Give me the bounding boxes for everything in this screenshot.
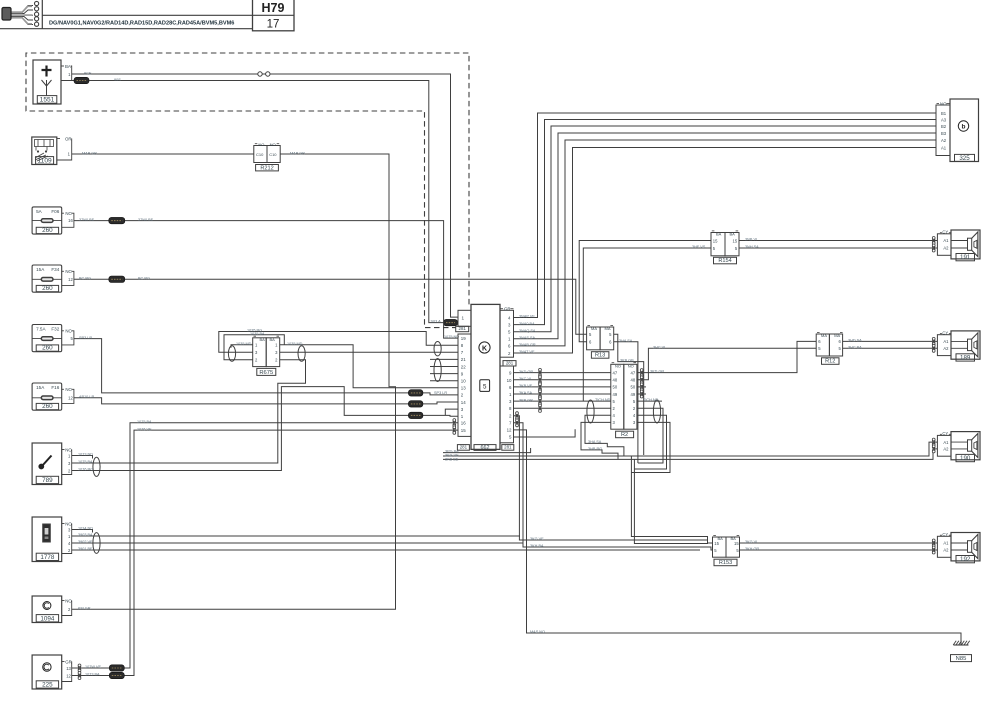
- shield ellipse at radio pins 21-10: [434, 359, 441, 382]
- wire: 662 pin 2 to amplifier 325: [514, 148, 937, 354]
- wire: 662 pin 1 to amplifier 325: [514, 133, 937, 339]
- svg-text:GR: GR: [65, 660, 72, 665]
- svg-text:R12: R12: [825, 359, 835, 365]
- svg-text:189: 189: [960, 355, 971, 362]
- svg-text:3HC BA: 3HC BA: [848, 345, 862, 349]
- svg-text:49: 49: [631, 392, 636, 397]
- svg-text:A2: A2: [943, 548, 949, 553]
- svg-text:1035 MD: 1035 MD: [287, 342, 303, 346]
- svg-text:BA: BA: [260, 337, 266, 342]
- svg-text:DG/NAV0G1,NAV0G2/RAD14D,RAD15D: DG/NAV0G1,NAV0G2/RAD14D,RAD15D,RAD28C,RA…: [49, 20, 234, 26]
- radio pin 10 stub: [430, 380, 458, 382]
- svg-text:3KG VI: 3KG VI: [745, 540, 757, 544]
- wire: R2 right pin 5 stub: [637, 400, 662, 402]
- svg-text:1075 BA: 1075 BA: [78, 460, 93, 464]
- svg-text:MA: MA: [834, 333, 840, 338]
- wire: 1778 pin 3 shield stub: [72, 530, 93, 533]
- wire: R2 pin 3 staircase to 190 line: [581, 422, 618, 459]
- svg-text:3KB VE: 3KB VE: [519, 384, 533, 388]
- svg-text:1551: 1551: [40, 97, 55, 104]
- svg-text:13: 13: [66, 666, 71, 671]
- svg-text:48: 48: [613, 378, 618, 383]
- wire: under-unit line 3 to speaker 190 A2: [443, 449, 937, 460]
- svg-text:TICH ND: TICH ND: [595, 398, 611, 402]
- wire: antenna shield to radio: [61, 80, 74, 82]
- inline junctions on antenna lead: [258, 72, 262, 76]
- svg-text:281: 281: [459, 326, 467, 331]
- svg-text:MA: MA: [605, 326, 611, 331]
- svg-text:3NA0 BA: 3NA0 BA: [519, 322, 535, 326]
- svg-text:15: 15: [733, 238, 738, 243]
- svg-text:OR: OR: [65, 137, 72, 142]
- speaker 191 front right: [937, 234, 951, 256]
- svg-text:3KH BA: 3KH BA: [530, 544, 544, 548]
- display unit 1778: [32, 517, 62, 562]
- wire: under-unit line 2 to speaker 190 A1: [443, 442, 937, 456]
- wire: R2 pin 48 to R12 pin 5: [637, 348, 816, 380]
- svg-text:MAP GR: MAP GR: [290, 151, 305, 155]
- fuse F16 15A in fuse box 260: [32, 383, 62, 410]
- svg-text:3KB GB: 3KB GB: [620, 359, 634, 363]
- wire: F16 to radio pin 14: [74, 398, 458, 404]
- wire: R2 right pin 2 loop: [637, 408, 663, 463]
- svg-text:B2: B2: [941, 124, 947, 129]
- wire: R2 pin 49 stub: [637, 393, 646, 395]
- wire: R12 right pin 6 to speaker 189 A1: [843, 340, 938, 342]
- svg-text:7.5A: 7.5A: [36, 327, 46, 332]
- ground N85: [954, 644, 969, 646]
- svg-text:1035 MD: 1035 MD: [236, 342, 252, 346]
- connector label 281 bottom-left: [457, 445, 469, 451]
- svg-text:BA: BA: [270, 337, 276, 342]
- connector label 281 right-bottom: [502, 445, 514, 451]
- svg-text:3KC VI: 3KC VI: [519, 377, 531, 381]
- speaker 190 rear right: [937, 435, 951, 456]
- wire: R675 left pin 3 to radio pin 8: [219, 332, 458, 353]
- svg-text:10: 10: [461, 379, 466, 384]
- wire: F06 to radio pin 19: [74, 221, 458, 339]
- svg-text:NO: NO: [615, 364, 621, 369]
- svg-text:662: 662: [481, 445, 490, 451]
- svg-text:F34: F34: [51, 267, 59, 272]
- diagnostic socket 225: [32, 655, 62, 689]
- svg-text:R2: R2: [621, 432, 628, 438]
- wire: 789 pin 2 to radio pin 1: [72, 387, 458, 471]
- svg-text:1076 RG: 1076 RG: [78, 468, 93, 472]
- svg-text:3KD GR: 3KD GR: [519, 370, 533, 374]
- svg-text:260: 260: [42, 227, 53, 234]
- svg-text:1076 VE: 1076 VE: [137, 427, 152, 431]
- svg-text:1073 BA: 1073 BA: [85, 673, 100, 677]
- 1551 pin bracket BA / pin 1: [61, 65, 64, 67]
- wire: 662 pin 10 to R2: [514, 379, 611, 381]
- amplifier 325: [936, 105, 950, 156]
- svg-text:B3: B3: [941, 131, 947, 136]
- svg-text:1109: 1109: [38, 158, 53, 165]
- svg-text:1: 1: [462, 316, 465, 321]
- svg-text:12: 12: [68, 277, 73, 282]
- connector label 281 right-top: [503, 361, 516, 366]
- speaker 189 front left: [937, 335, 951, 356]
- svg-text:A2: A2: [941, 138, 947, 143]
- shield ellipse left of R675: [228, 346, 235, 362]
- svg-text:3NAQ SA: 3NAQ SA: [519, 329, 536, 333]
- svg-text:50: 50: [613, 385, 618, 390]
- wire: R2 right pin 3 loop: [631, 422, 670, 472]
- svg-text:CY: CY: [942, 331, 948, 336]
- svg-text:3KA SA: 3KA SA: [519, 391, 533, 395]
- svg-text:1035 BA: 1035 BA: [250, 332, 265, 336]
- svg-text:MAS NO: MAS NO: [530, 630, 545, 634]
- wire: R2 pin 47 to R12 pin 6: [637, 341, 816, 372]
- svg-text:B1: B1: [941, 111, 947, 116]
- shield ellipse at 789: [93, 457, 100, 476]
- svg-text:3NAS SA: 3NAS SA: [519, 336, 536, 340]
- wire: 662 pin 4 to amplifier 325: [514, 113, 937, 318]
- wire: 662 pin 6 to amplifier 325: [514, 140, 937, 346]
- svg-text:225: 225: [42, 682, 53, 689]
- svg-text:N85: N85: [956, 656, 967, 662]
- control unit 1094: [32, 596, 62, 623]
- svg-text:A2: A2: [943, 346, 949, 351]
- svg-text:NO: NO: [65, 387, 72, 392]
- 789 pin bracket NO / pins 1 3 2: [62, 449, 65, 451]
- ignition switch 1109: [32, 137, 57, 165]
- svg-text:MA: MA: [821, 333, 827, 338]
- 662 main left pin strip: [458, 334, 471, 436]
- shield ellipse at 1778: [93, 533, 100, 554]
- 662 right top pin strip (GR): [500, 310, 514, 357]
- wire: R675 right pin 3 to radio pin 7: [280, 351, 458, 353]
- svg-text:16: 16: [68, 218, 73, 223]
- svg-text:50: 50: [631, 385, 636, 390]
- svg-text:NO: NO: [270, 142, 276, 147]
- svg-text:MA: MA: [591, 326, 597, 331]
- shield ellipse right of R2: [653, 400, 660, 423]
- svg-text:R154: R154: [718, 258, 731, 264]
- 662 secondary logo: [480, 380, 490, 392]
- microphone 789: [32, 443, 62, 485]
- svg-text:281: 281: [504, 445, 512, 450]
- svg-text:NO: NO: [628, 364, 634, 369]
- svg-text:H79: H79: [262, 1, 285, 15]
- svg-text:16: 16: [461, 421, 466, 426]
- wire: R2 pin 4 staircase to 190 line: [585, 415, 624, 456]
- svg-text:F06: F06: [51, 209, 59, 214]
- svg-text:3KB BE: 3KB BE: [445, 457, 459, 461]
- svg-text:13: 13: [461, 386, 466, 391]
- svg-text:A1: A1: [941, 145, 947, 150]
- connector R212: [254, 146, 267, 163]
- svg-text:3HA SA: 3HA SA: [619, 339, 633, 343]
- connector R12: [816, 334, 829, 356]
- svg-text:A1: A1: [943, 238, 949, 243]
- wire: R154 right pin 5 to speaker 191 A2: [739, 247, 937, 249]
- svg-text:A1: A1: [943, 440, 949, 445]
- svg-text:GR: GR: [504, 306, 511, 311]
- svg-text:22: 22: [461, 364, 466, 369]
- svg-text:3HA SA: 3HA SA: [588, 440, 602, 444]
- wire: R154 right pin 15 to speaker 191 A1: [739, 240, 937, 242]
- svg-text:A2: A2: [943, 246, 949, 251]
- header title block: [0, 28, 253, 30]
- svg-text:F32: F32: [51, 327, 59, 332]
- svg-text:15: 15: [461, 428, 466, 433]
- wire: loop below R2 a: [631, 456, 707, 540]
- svg-text:NO: NO: [258, 142, 264, 147]
- wire: 662 pin 1 to R2: [514, 393, 611, 395]
- wire: R154 pin 15 to R13 pin 6: [579, 241, 711, 342]
- wire: R675 left pin 1 stub: [231, 345, 253, 348]
- wire: branch to radio pin 3: [445, 409, 458, 415]
- svg-text:SP3 LR: SP3 LR: [79, 336, 92, 340]
- wire: 662 pin 2 to R153 pin 15: [516, 412, 519, 415]
- radio-navigation unit 662 body: [471, 304, 500, 449]
- svg-text:260: 260: [42, 285, 53, 292]
- wire: antenna pin 1 coax core to radio pin 1: [72, 74, 458, 317]
- wire: R13 right pin 5 drop: [614, 334, 644, 455]
- svg-text:A1: A1: [943, 339, 949, 344]
- svg-text:R675: R675: [259, 370, 273, 376]
- svg-text:325: 325: [959, 155, 970, 162]
- svg-text:1075 BA: 1075 BA: [137, 420, 152, 424]
- wire: 225 pin 12 to radio pin 15: [72, 430, 458, 675]
- radio pin 9 stub: [430, 373, 458, 375]
- speaker 192 rear left: [937, 536, 951, 557]
- wire: R153 right pin 5 to speaker 192 A2: [740, 549, 938, 551]
- wire: R13 right pin 6 drop: [614, 342, 638, 463]
- shield ellipse right of R675: [298, 346, 305, 362]
- svg-text:R212: R212: [260, 165, 273, 171]
- svg-text:260: 260: [42, 345, 53, 352]
- svg-text:5A: 5A: [36, 209, 43, 214]
- wire: R212 to 1094 pin 2 (long loop): [72, 154, 396, 609]
- svg-text:CY: CY: [942, 532, 948, 537]
- wire: R153 right pin 15 to speaker 192 A1: [740, 542, 938, 544]
- svg-text:12: 12: [66, 673, 71, 678]
- svg-text:191: 191: [960, 254, 971, 261]
- fuse F32 7.5A in fuse box 260: [32, 325, 62, 352]
- wire: R12 right pin 5 to speaker 189 A2: [843, 347, 938, 349]
- svg-text:b: b: [962, 124, 966, 131]
- svg-text:47: 47: [613, 370, 618, 375]
- svg-text:BC RG: BC RG: [79, 277, 91, 281]
- svg-text:12: 12: [68, 395, 73, 400]
- svg-text:BC RG: BC RG: [138, 277, 150, 281]
- svg-text:NO: NO: [65, 211, 72, 216]
- wire: R2 right pin 4 loop: [634, 415, 666, 469]
- wire: 662 pin 8 to R2: [514, 407, 611, 409]
- svg-text:K: K: [482, 345, 487, 352]
- svg-text:19: 19: [461, 336, 466, 341]
- svg-text:90S: 90S: [114, 78, 121, 82]
- svg-text:260: 260: [42, 403, 53, 410]
- svg-text:12: 12: [507, 428, 512, 433]
- 1094 pin bracket NO / pin 2: [62, 600, 65, 602]
- svg-text:F16: F16: [51, 385, 59, 390]
- svg-text:C10: C10: [256, 152, 264, 157]
- svg-text:15: 15: [714, 541, 719, 546]
- svg-text:21: 21: [461, 357, 466, 362]
- wire: 662 pin 12 ground to N85: [514, 430, 962, 645]
- wire: 1778 pin 2: [72, 549, 700, 551]
- svg-text:3HD SA: 3HD SA: [848, 339, 862, 343]
- wire: under-unit line 1: [443, 448, 531, 453]
- wire: R675 left pin 2 branch: [224, 335, 284, 360]
- svg-text:1075 ND: 1075 ND: [444, 335, 459, 339]
- unit label 662: [474, 445, 496, 451]
- connector R154: [711, 233, 725, 256]
- svg-text:47: 47: [631, 370, 636, 375]
- wire: 1778 pin 4: [72, 542, 524, 544]
- connector R13: [587, 327, 601, 350]
- svg-text:S03 A: S03 A: [431, 320, 442, 324]
- svg-text:MAP GR: MAP GR: [82, 151, 97, 155]
- svg-text:C10: C10: [269, 152, 277, 157]
- wire: 789 pin 1 shield stub: [72, 456, 93, 459]
- wire: 662 pin 7 to R153 pin 5: [516, 419, 519, 422]
- antenna 1551: [33, 60, 61, 104]
- svg-text:190: 190: [960, 455, 971, 462]
- svg-text:3NAT VE: 3NAT VE: [519, 350, 535, 354]
- svg-text:3NH SA: 3NH SA: [745, 245, 759, 249]
- svg-text:3901 BE: 3901 BE: [78, 547, 93, 551]
- svg-text:15: 15: [734, 541, 739, 546]
- svg-text:3HF VS: 3HF VS: [692, 245, 706, 249]
- shield ellipse left of R2: [587, 400, 594, 423]
- wire: loop below R2 b: [634, 459, 708, 543]
- svg-text:3NB VI: 3NB VI: [745, 238, 757, 242]
- svg-text:NO: NO: [65, 269, 72, 274]
- svg-text:A3: A3: [941, 117, 947, 122]
- fuse F06 5A in fuse box 260: [32, 207, 62, 234]
- svg-text:KM GR: KM GR: [78, 607, 91, 611]
- wire: R675 right pin 1 to radio pin 13: [280, 345, 458, 388]
- svg-text:49: 49: [613, 392, 618, 397]
- header harness connector icon: [11, 6, 34, 25]
- svg-text:9CE: 9CE: [84, 71, 92, 75]
- svg-text:107W VE: 107W VE: [85, 665, 102, 669]
- wire: 662 pin 3 to amplifier 325: [514, 120, 937, 325]
- svg-text:CY: CY: [942, 230, 948, 235]
- wire: 662 pin 5 to R2 underside: [514, 429, 576, 437]
- svg-text:3902 VE: 3902 VE: [78, 540, 93, 544]
- svg-text:17: 17: [267, 18, 280, 30]
- svg-text:5: 5: [483, 384, 487, 391]
- svg-text:3HB RG: 3HB RG: [588, 447, 602, 451]
- radio pin 21 stub: [430, 358, 458, 360]
- connector R153: [713, 537, 727, 557]
- 225 pin bracket GR / pins 13 12: [62, 661, 65, 663]
- svg-text:TICH ND: TICH ND: [643, 398, 659, 402]
- wire: F34 to R13 pin 5: [74, 279, 587, 334]
- wire: F32 to radio pin 2: [74, 339, 458, 395]
- radio pin 22 stub: [430, 366, 458, 368]
- svg-text:BA: BA: [65, 64, 71, 69]
- svg-text:BA: BA: [716, 232, 722, 237]
- svg-text:3KG VE: 3KG VE: [530, 537, 544, 541]
- svg-text:CY: CY: [942, 431, 948, 436]
- svg-text:789: 789: [42, 477, 53, 484]
- svg-text:1778: 1778: [40, 554, 55, 561]
- fuse F34 15A in fuse box 260: [32, 265, 62, 292]
- svg-text:1094: 1094: [40, 615, 55, 622]
- svg-text:48: 48: [631, 378, 636, 383]
- 662 coax pin strip (pin 1): [458, 310, 471, 326]
- svg-text:SP3 LR: SP3 LR: [434, 391, 447, 395]
- svg-text:NO: NO: [940, 101, 947, 106]
- shield ellipse at radio pins 8-7: [434, 342, 441, 356]
- wire: 662 pin 6 to R2: [514, 386, 611, 388]
- wire: 1109 pin 1 to R212: [72, 153, 254, 155]
- svg-text:37N0 BE: 37N0 BE: [79, 218, 95, 222]
- 1109 pin bracket OR / pin 1: [57, 138, 60, 140]
- svg-text:3NAP VE: 3NAP VE: [519, 315, 535, 319]
- svg-text:192: 192: [960, 556, 971, 563]
- svg-text:1073 ND: 1073 ND: [78, 453, 93, 457]
- wire: 789 pin 3 to R675 right pin 2: [72, 360, 306, 463]
- 1778 pin bracket NO / pins 3 1 4 2: [62, 523, 65, 525]
- svg-text:3KD GR: 3KD GR: [650, 370, 664, 374]
- connector label 281 top-left: [456, 326, 469, 331]
- svg-text:3NAB GR: 3NAB GR: [519, 343, 536, 347]
- wire: 225 pin 13 to radio pin 16: [72, 423, 458, 668]
- svg-text:3KB GR: 3KB GR: [519, 398, 533, 402]
- svg-text:1034 ND: 1034 ND: [78, 527, 93, 531]
- svg-text:281: 281: [506, 360, 514, 365]
- wire: R2 pin 50 stub: [637, 386, 646, 388]
- svg-text:3903 BA: 3903 BA: [78, 533, 93, 537]
- 662 right bottom pin strip: [500, 366, 514, 443]
- svg-text:14: 14: [461, 400, 466, 405]
- svg-text:15A: 15A: [36, 385, 45, 390]
- svg-text:BA: BA: [730, 232, 736, 237]
- svg-text:R13: R13: [595, 353, 605, 359]
- wire: 662 pin 9 to R2: [514, 372, 611, 374]
- svg-text:3HC VI: 3HC VI: [653, 345, 665, 349]
- svg-text:NO: NO: [65, 329, 72, 334]
- svg-text:3KH GR: 3KH GR: [745, 547, 759, 551]
- svg-text:37N0 BE: 37N0 BE: [138, 218, 154, 222]
- svg-text:10: 10: [507, 378, 512, 383]
- wire: 1778 pin 1: [72, 535, 520, 537]
- svg-text:R153: R153: [719, 560, 732, 566]
- svg-text:15: 15: [713, 238, 718, 243]
- wire: R154 pin 5 down to R2 row: [583, 248, 711, 401]
- connector R2: [611, 364, 624, 429]
- svg-text:15A: 15A: [36, 267, 45, 272]
- wire: 662 pin 3 to R2: [514, 400, 611, 402]
- svg-text:A2: A2: [943, 447, 949, 452]
- wire: 662 pin 5 to amplifier 325: [514, 126, 937, 332]
- svg-text:281: 281: [460, 445, 468, 450]
- svg-text:AP10 LR: AP10 LR: [79, 395, 94, 399]
- 662 brand logo: [479, 342, 490, 353]
- svg-text:A1: A1: [943, 541, 949, 546]
- connector R675: [253, 338, 267, 367]
- dashed boundary (optional equipment zone): [26, 53, 469, 328]
